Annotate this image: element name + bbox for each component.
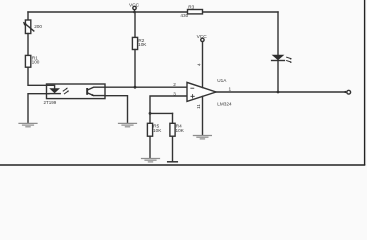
wire optocoupler cathode to ground [28, 94, 47, 123]
wire R4 down [172, 136, 174, 161]
svg-text:VCC: VCC [197, 34, 208, 40]
svg-text:U1A: U1A [217, 78, 227, 83]
LED D1 [272, 55, 285, 92]
wire op-amp pin 11 to ground [202, 96, 204, 134]
wire VCC rail down to R2 [134, 12, 136, 37]
optocoupler 2T199 body [47, 84, 106, 99]
ground (R5) [142, 159, 160, 162]
power port VCC (left) [133, 6, 136, 12]
op-amp U1A [187, 82, 216, 101]
svg-text:2: 2 [173, 82, 176, 87]
minus sign (inverting input) [191, 87, 194, 89]
resistor R2 [132, 37, 137, 49]
resistor R1 [25, 55, 30, 67]
svg-text:10K: 10K [176, 128, 185, 133]
wire collector to op-amp inverting input [105, 86, 187, 88]
ground (bottom left) [19, 123, 37, 126]
svg-text:430: 430 [180, 13, 188, 18]
phototransistor inside optocoupler [86, 87, 105, 96]
svg-text:10K: 10K [153, 128, 162, 133]
wire emitter to ground [105, 96, 128, 123]
wire R2 to inverting-input net [134, 50, 136, 88]
wire VCC rail top [28, 11, 278, 13]
resistor R3 [188, 10, 203, 14]
svg-text:10K: 10K [138, 42, 147, 47]
svg-text:3: 3 [173, 92, 176, 97]
ground (op-amp pin 11) [193, 136, 211, 139]
node junction LED / output [277, 91, 280, 94]
wire R5 to ground [149, 136, 151, 158]
light arrows inside optocoupler [63, 88, 69, 94]
svg-text:2T199: 2T199 [44, 100, 57, 105]
LED light arrows [287, 57, 292, 63]
svg-text:200: 200 [34, 24, 42, 29]
ground (optocoupler emitter) [119, 123, 137, 126]
plus sign (non-inverting input) [191, 95, 194, 99]
resistor R5 [147, 123, 152, 136]
potentiometer 200 [23, 20, 34, 34]
svg-text:LM324: LM324 [217, 102, 232, 107]
bar terminal (R4) [168, 161, 178, 163]
node junction R2 / inverting input [134, 86, 137, 89]
svg-text:11: 11 [196, 104, 201, 109]
power port VCC (op-amp pin 4) [201, 38, 204, 87]
wire op-amp output [216, 91, 345, 93]
svg-text:R3: R3 [188, 5, 194, 10]
node junction R5 / R4 [149, 112, 152, 115]
svg-text:1: 1 [229, 87, 232, 92]
node junction VCC / R2 [133, 11, 136, 14]
resistor R4 [170, 123, 175, 136]
output terminal [344, 90, 350, 94]
svg-text:100: 100 [32, 60, 40, 65]
wire R1 to optocoupler anode [28, 67, 47, 85]
wire VCC rail to LED [277, 12, 279, 55]
svg-text:VCC: VCC [129, 2, 140, 8]
wire to R5 [149, 113, 151, 123]
svg-text:4: 4 [197, 63, 202, 66]
wire to R4 [172, 113, 174, 123]
wire from pot top [27, 12, 29, 20]
LED inside optocoupler [47, 85, 61, 93]
wire pot to R1 [27, 34, 29, 56]
wire non-inverting input net [150, 96, 187, 113]
